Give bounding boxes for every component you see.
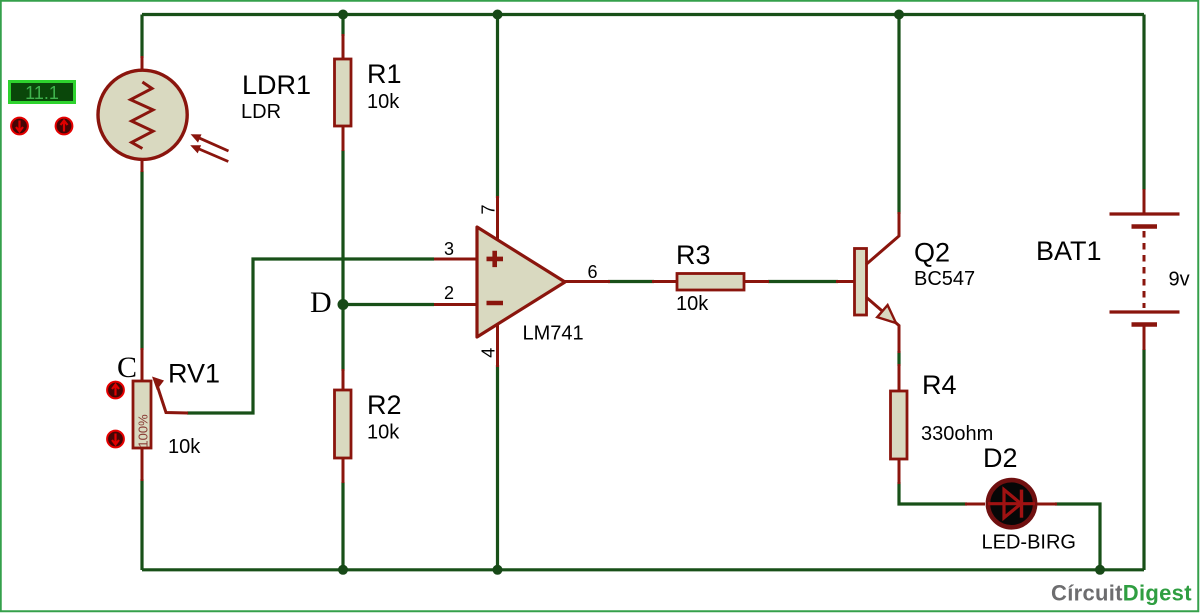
wire R1 to node D to R2 — [341, 150, 344, 371]
svg-text:BC547: BC547 — [914, 268, 975, 290]
svg-text:4: 4 — [478, 348, 498, 358]
svg-text:D2: D2 — [983, 443, 1018, 473]
wire Q2 collector branch — [897, 15, 900, 215]
LDR1 photoresistor — [98, 56, 187, 172]
node D junction — [338, 299, 349, 310]
svg-text:R2: R2 — [367, 390, 402, 420]
wire left rail RV1 to bottom — [140, 479, 143, 570]
svg-text:9v: 9v — [1169, 269, 1190, 291]
wire left rail LDR to RV1 — [140, 171, 143, 350]
wire R1 branch — [341, 15, 344, 37]
svg-text:R4: R4 — [922, 370, 957, 400]
svg-text:LDR: LDR — [241, 101, 281, 123]
svg-text:Q2: Q2 — [914, 238, 950, 268]
wire R2 to bottom rail — [341, 482, 344, 570]
svg-text:10k: 10k — [367, 91, 400, 113]
RV1 down button — [107, 431, 124, 448]
wire right rail above battery — [1142, 15, 1145, 191]
resistor R2 — [335, 369, 352, 483]
wire R4 to LED D2 — [899, 482, 967, 504]
junction R1 top — [338, 10, 348, 20]
LDR1 light arrow lower — [190, 145, 228, 161]
svg-text:10k: 10k — [367, 422, 400, 444]
battery BAT1 — [1110, 189, 1180, 350]
svg-text:3: 3 — [444, 239, 454, 259]
svg-text:R1: R1 — [367, 59, 402, 89]
wire bottom rail — [142, 568, 1144, 571]
svg-text:11.1: 11.1 — [25, 83, 59, 103]
junction pin7 top — [493, 10, 503, 20]
junction R2 bottom — [338, 565, 348, 575]
svg-text:CírcuitDigest: CírcuitDigest — [1051, 581, 1192, 606]
svg-text:LDR1: LDR1 — [242, 70, 311, 100]
junction LED branch bottom — [1095, 565, 1105, 575]
svg-text:LED-BIRG: LED-BIRG — [982, 532, 1076, 554]
op-amp U1 LM741 — [434, 196, 610, 367]
LDR light-level display 11.1 — [10, 82, 75, 104]
svg-text:10k: 10k — [168, 436, 201, 458]
RV1 wiper arrow — [152, 377, 188, 414]
LDR brightness up button — [56, 118, 73, 135]
svg-text:BAT1: BAT1 — [1036, 236, 1102, 266]
wire LED D2 to bottom rail — [1055, 504, 1100, 570]
resistor R1 — [335, 34, 352, 151]
wire R3 to Q2 base — [768, 280, 838, 283]
wire left rail above LDR — [140, 15, 143, 59]
svg-text:D: D — [310, 286, 332, 319]
wire Q2 emitter to R4 — [897, 351, 900, 366]
transistor Q2 — [836, 212, 899, 353]
LDR1 light arrow upper — [191, 134, 229, 151]
svg-text:7: 7 — [479, 204, 499, 214]
svg-text:330ohm: 330ohm — [921, 423, 993, 445]
LED D2 — [965, 480, 1057, 527]
potentiometer RV1 — [133, 348, 151, 481]
svg-text:R3: R3 — [676, 240, 711, 270]
svg-text:2: 2 — [444, 283, 454, 303]
svg-text:6: 6 — [587, 262, 597, 282]
CircuitDigest logo — [1051, 581, 1192, 606]
junction Q2 collector top — [894, 10, 904, 20]
wire right rail below battery — [1142, 349, 1145, 570]
svg-text:C: C — [117, 351, 137, 384]
svg-text:LM741: LM741 — [523, 323, 584, 345]
junction pin4 bottom — [493, 565, 503, 575]
wire RV1 wiper to op-amp pin3 — [187, 259, 434, 413]
svg-text:10k: 10k — [676, 293, 709, 315]
LDR brightness down button — [11, 118, 28, 135]
svg-text:100%: 100% — [136, 414, 151, 448]
wire op-amp pin7 branch — [496, 15, 499, 199]
svg-text:RV1: RV1 — [168, 359, 220, 389]
wire top rail — [142, 13, 1144, 16]
RV1 up button — [107, 382, 124, 399]
wire op-amp pin4 to bottom rail — [496, 365, 499, 570]
resistor R4 — [891, 364, 908, 484]
wire op-amp output to R3 — [608, 280, 654, 283]
wire node D to op-amp pin2 — [343, 303, 434, 306]
resistor R3 — [652, 274, 769, 291]
